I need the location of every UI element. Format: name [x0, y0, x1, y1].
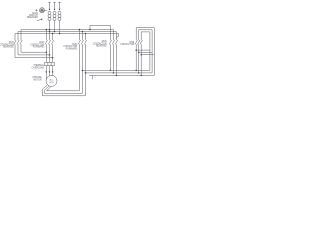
contactor K2 forward pole A: [45, 29, 47, 63]
supply line L3: [58, 2, 61, 33]
svg-text:BREAKER: BREAKER: [27, 16, 38, 19]
node supply-bus junctions: [49, 29, 51, 31]
contactor K1 reverse pole B: [17, 32, 50, 55]
svg-text:MOTOR: MOTOR: [33, 79, 42, 81]
node K5 tie junctions: [135, 70, 137, 72]
contactor K5 line pole A: [135, 28, 154, 71]
bus L1: [21, 29, 113, 31]
wire bus riser: [89, 25, 110, 30]
wire OL to motor: [46, 66, 52, 80]
svg-text:OVERLOAD: OVERLOAD: [32, 66, 45, 69]
contactor K5 line pole B: [138, 30, 153, 73]
svg-text:FORWARD: FORWARD: [66, 47, 78, 50]
label K3: [63, 44, 77, 50]
supply line L1: [48, 2, 51, 29]
contactor K4 reverse pole C: [115, 32, 117, 76]
contactor K4 reverse pole A: [109, 25, 111, 70]
wire motor T4: [42, 85, 85, 96]
wire motor T5: [45, 86, 83, 93]
svg-text:FORWARD: FORWARD: [33, 46, 45, 49]
contactor K1 reverse pole C: [14, 34, 53, 58]
motor M1: [46, 75, 57, 86]
contactor K5 line pole C: [140, 32, 150, 76]
wire tie T2: [86, 72, 153, 74]
label K5: [120, 42, 134, 46]
incoming power label: [27, 12, 42, 21]
node motor leads: [46, 71, 47, 72]
wire K5 jog A: [136, 49, 150, 51]
label OL: [32, 64, 45, 69]
wire tie T3: [89, 74, 154, 76]
label K1: [0, 42, 14, 48]
node K1-K2 ties: [46, 51, 48, 53]
wire motor T6: [47, 87, 80, 91]
label K4: [93, 41, 107, 47]
wire K5 jog B: [139, 51, 152, 53]
node K5 jog junctions: [135, 49, 137, 51]
wire outer loop B: [151, 30, 153, 73]
bus L2: [18, 31, 116, 33]
wire K5 jog C: [141, 54, 154, 56]
label K2: [30, 42, 44, 48]
overload relay OL: [45, 62, 55, 65]
meter symbol: [35, 8, 47, 13]
wire outer loop A: [149, 32, 151, 71]
contactor K4 reverse pole B: [112, 30, 114, 73]
contactor K2 forward pole B: [48, 30, 50, 63]
contactor K3 forward pole C: [84, 33, 86, 96]
label motor: [32, 76, 42, 81]
contactor K1 reverse pole A: [20, 30, 47, 53]
supply line L2: [53, 2, 56, 31]
svg-text:MTR: MTR: [49, 82, 54, 84]
node K4 tie junctions: [110, 70, 112, 72]
wire tie T1: [82, 69, 149, 71]
svg-text:REVERSE: REVERSE: [3, 47, 14, 49]
wire outer loop C: [153, 28, 155, 76]
svg-text:REVERSE: REVERSE: [96, 46, 107, 48]
contactor K3 forward pole B: [81, 31, 83, 94]
svg-text:CONTACTOR: CONTACTOR: [120, 43, 134, 46]
wire stub node X: [92, 75, 94, 79]
bus L3: [15, 34, 119, 38]
contactor K3 forward pole A: [78, 29, 80, 91]
contactor K2 forward pole C: [51, 33, 53, 63]
